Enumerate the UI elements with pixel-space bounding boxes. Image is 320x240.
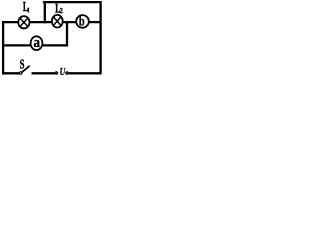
svg-text:a: a: [34, 36, 41, 52]
wire: bottom segment from switch blade to U left terminal: [32, 72, 55, 74]
meter a: [31, 36, 43, 52]
meter b: [76, 13, 89, 29]
wire: bottom segment from U right terminal to right edge: [69, 72, 101, 74]
background: [0, 0, 105, 79]
wire: main lamp row segments: [2, 21, 100, 23]
svg-text:2: 2: [60, 7, 64, 15]
svg-text:L: L: [23, 0, 29, 15]
wire: left edge vertical: [2, 21, 4, 74]
lamp L1: [18, 16, 29, 28]
wire: top horizontal from node between lamps to right edge: [43, 1, 101, 3]
source U left terminal: [55, 72, 57, 74]
svg-text:b: b: [79, 13, 85, 29]
switch S blade: [22, 66, 30, 73]
source U right terminal: [66, 72, 68, 74]
wire: ammeter branch horizontal segments: [2, 44, 68, 46]
wire: bottom left segment to switch pivot: [2, 72, 19, 74]
switch S pivot: [19, 72, 21, 74]
wire: right edge vertical: [99, 1, 101, 74]
label L1 subscript 1: [27, 8, 29, 13]
wire: mid vertical node between L1 and L2: [44, 1, 46, 23]
lamp L2: [52, 15, 63, 28]
wire: ammeter branch right vertical: [66, 21, 68, 46]
svg-text:S: S: [20, 58, 25, 72]
svg-text:U: U: [60, 66, 66, 77]
